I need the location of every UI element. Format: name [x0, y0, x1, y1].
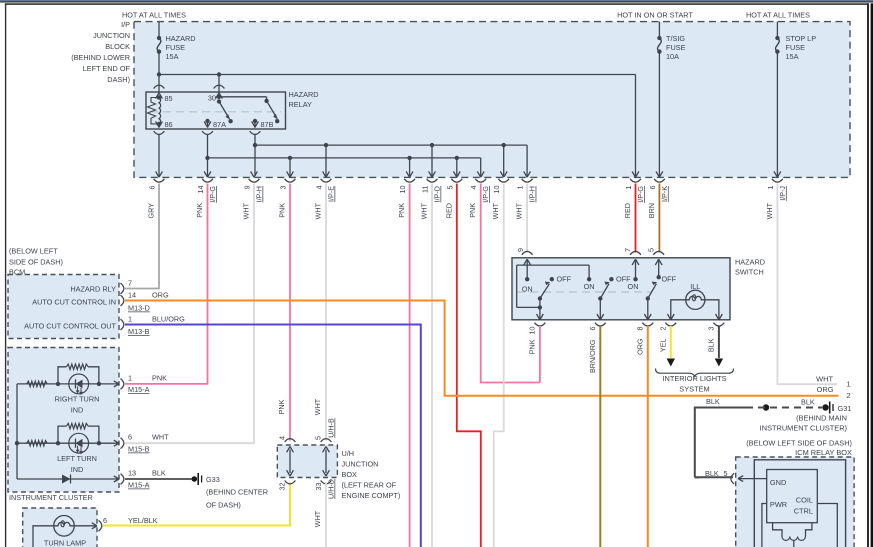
- svg-text:1: 1: [516, 186, 525, 190]
- label BEHIND CENTER OF DASH: [206, 488, 268, 510]
- label ORG right + pin 2: [817, 385, 851, 400]
- svg-text:IND: IND: [71, 465, 84, 474]
- turn lamp left wire: [33, 526, 54, 547]
- hazard pin 9 top: [516, 248, 533, 279]
- wire PNK to cluster pin1: [125, 184, 208, 384]
- switch2 arm: [598, 282, 610, 301]
- svg-text:I/P-K: I/P-K: [660, 186, 669, 202]
- ICM PWR wire: [762, 504, 767, 547]
- svg-text:(BEHIND MAIN: (BEHIND MAIN: [796, 413, 847, 422]
- svg-text:BLK: BLK: [706, 397, 720, 406]
- svg-text:ON: ON: [522, 284, 533, 293]
- switch3 ON contact: [628, 277, 639, 291]
- svg-text:ORG: ORG: [817, 385, 834, 394]
- svg-text:7: 7: [623, 248, 632, 252]
- svg-text:AUTO CUT CONTROL IN: AUTO CUT CONTROL IN: [32, 298, 116, 307]
- U/H pin 33 bottom: [314, 479, 336, 499]
- svg-text:32: 32: [278, 483, 287, 491]
- svg-text:1: 1: [847, 380, 851, 389]
- label TURN LAMP: [44, 539, 86, 547]
- wire RED 5 down: [457, 184, 481, 547]
- svg-text:OFF: OFF: [557, 275, 572, 284]
- wire WHT 1 stop lamp feed: [777, 184, 837, 385]
- wire fuse feed: [158, 22, 160, 38]
- wire branch pnk 4 (corner): [480, 158, 482, 176]
- fuse T/SIG FUSE 10A: [657, 34, 685, 61]
- svg-text:BOX: BOX: [342, 470, 358, 479]
- svg-text:OF DASH): OF DASH): [206, 501, 241, 510]
- svg-text:(LEFT REAR OF: (LEFT REAR OF: [342, 481, 397, 490]
- page frame top: [5, 3, 869, 5]
- svg-text:ORG: ORG: [152, 291, 169, 300]
- I/P junction block box: [134, 22, 850, 178]
- svg-text:U/H-B: U/H-B: [327, 418, 336, 438]
- svg-text:INSTRUMENT CLUSTER): INSTRUMENT CLUSTER): [760, 423, 847, 432]
- svg-text:PNK: PNK: [277, 399, 286, 414]
- svg-text:HAZARD: HAZARD: [289, 90, 319, 99]
- U/H internal arrow 5-33: [323, 447, 330, 477]
- svg-text:14: 14: [128, 291, 136, 300]
- switch rail net: [517, 265, 589, 309]
- bus 87B upper: [255, 143, 527, 147]
- svg-text:DASH): DASH): [107, 75, 130, 84]
- page frame right: [867, 3, 869, 547]
- svg-text:GRY: GRY: [147, 203, 156, 219]
- svg-text:10: 10: [528, 327, 537, 335]
- svg-text:7: 7: [128, 279, 132, 288]
- svg-text:8: 8: [636, 327, 645, 331]
- ground G31: [830, 402, 852, 414]
- svg-text:87A: 87A: [213, 120, 226, 129]
- svg-text:ON: ON: [628, 282, 639, 291]
- switch mechanical dashed link: [517, 291, 652, 293]
- relay contact 87B: [250, 119, 274, 135]
- wire BLK to interior lights: [715, 326, 723, 367]
- svg-text:HOT IN ON OR START: HOT IN ON OR START: [617, 11, 693, 20]
- svg-text:SWITCH: SWITCH: [735, 268, 764, 277]
- ICM pin 5: [705, 469, 734, 484]
- wire BRN 6 to hazard pin5: [658, 184, 660, 253]
- relay coil (pins 85-86): [148, 94, 173, 129]
- bypass loop left turn: [58, 423, 99, 443]
- switch1 ON contact: [522, 277, 533, 293]
- wire YEL to interior lights: [667, 326, 675, 367]
- BCM pin 1 AUTO CUT CONTROL OUT: [24, 315, 185, 337]
- svg-text:YEL/BLK: YEL/BLK: [128, 516, 158, 525]
- connector pin 9 WHT: [242, 171, 264, 219]
- svg-text:M15-A: M15-A: [128, 481, 150, 490]
- ILL right wire to pin 3: [705, 300, 722, 320]
- svg-text:15A: 15A: [166, 52, 179, 61]
- wire ORG hazard pin8: [647, 326, 649, 547]
- cluster pin 1: [114, 374, 167, 395]
- svg-text:85: 85: [165, 94, 173, 103]
- label I/P JUNCTION BLOCK (BEHIND LOWER LEFT END OF DASH): [71, 20, 130, 84]
- svg-text:86: 86: [165, 120, 173, 129]
- cluster left rail: [15, 384, 19, 479]
- connector pin 14 PNK: [195, 171, 217, 217]
- svg-text:(BEHIND CENTER: (BEHIND CENTER: [206, 488, 268, 497]
- svg-text:OFF: OFF: [662, 275, 677, 284]
- connector pin 10 WHT: [491, 171, 509, 219]
- wire WHT from U/H 33: [313, 483, 326, 547]
- svg-text:10A: 10A: [666, 52, 679, 61]
- hazard switch box: [512, 258, 730, 320]
- wire branch wht 11: [431, 145, 433, 176]
- bus from hazard fuse: [157, 72, 636, 76]
- LED right turn ind: [69, 374, 89, 395]
- svg-text:TURN LAMP: TURN LAMP: [44, 539, 86, 547]
- hazard pin 10 bottom: [528, 323, 546, 355]
- diode: [62, 475, 71, 484]
- svg-text:10: 10: [398, 186, 407, 194]
- svg-text:AUTO CUT CONTROL OUT: AUTO CUT CONTROL OUT: [24, 322, 116, 331]
- svg-text:PNK: PNK: [528, 339, 537, 354]
- svg-text:1: 1: [128, 315, 132, 324]
- svg-text:WHT: WHT: [816, 374, 833, 383]
- bypass loop right turn: [58, 364, 99, 384]
- svg-text:BLOCK: BLOCK: [105, 42, 130, 51]
- svg-text:1: 1: [128, 374, 132, 383]
- LED left turn ind: [69, 433, 89, 454]
- wire BLK horizontal to pin: [695, 476, 735, 478]
- BCM pin 14 AUTO CUT CONTROL IN: [32, 291, 169, 313]
- svg-text:3: 3: [707, 327, 716, 331]
- wire branch red 5: [456, 158, 458, 176]
- svg-text:M13-D: M13-D: [128, 304, 150, 313]
- svg-text:INTERIOR LIGHTS: INTERIOR LIGHTS: [662, 374, 726, 383]
- connector pin 10 PNK: [397, 171, 415, 217]
- label GND: [770, 478, 786, 487]
- label BEHIND MAIN INSTRUMENT CLUSTER: [760, 413, 847, 432]
- svg-text:(BELOW LEFT SIDE OF DASH): (BELOW LEFT SIDE OF DASH): [746, 439, 852, 448]
- svg-text:(BEHIND LOWER: (BEHIND LOWER: [71, 53, 130, 62]
- ICM module box: [767, 470, 818, 523]
- interior lights brace: [656, 369, 734, 377]
- svg-text:I/P-G: I/P-G: [481, 186, 490, 203]
- turn lamp right wire: [74, 525, 97, 527]
- fuse STOP LP FUSE 15A: [775, 34, 816, 61]
- svg-text:WHT: WHT: [313, 510, 322, 527]
- ICM relay box outer: [736, 457, 854, 547]
- bus 87A lower: [208, 156, 481, 160]
- wire BLK ICM to G31 junction: [695, 477, 742, 482]
- svg-text:RED: RED: [444, 203, 453, 218]
- wire PNK to U/H pin4: [277, 184, 290, 441]
- ILL left wire to pin 2: [667, 300, 685, 320]
- wire bus down to I/P-G 1 (red feed): [635, 75, 637, 177]
- svg-text:ILL: ILL: [690, 282, 700, 291]
- svg-text:33: 33: [314, 483, 323, 491]
- connector pin 6 GRY: [147, 171, 165, 218]
- connector pin 1 WHT: [765, 171, 787, 219]
- svg-text:I/P: I/P: [121, 20, 130, 29]
- ground G33: [192, 473, 220, 485]
- svg-text:BRN: BRN: [647, 203, 656, 218]
- svg-text:G31: G31: [838, 404, 852, 413]
- svg-text:11: 11: [421, 186, 430, 193]
- svg-text:WHT: WHT: [314, 202, 323, 219]
- svg-text:FUSE: FUSE: [786, 43, 806, 52]
- label HOT AT ALL TIMES (right): [746, 11, 810, 20]
- connector pin 3 PNK: [278, 171, 296, 217]
- turn lamp box: [23, 508, 97, 547]
- right turn row wire: [17, 382, 119, 386]
- svg-text:WHT: WHT: [765, 202, 774, 219]
- svg-text:(BELOW LEFT: (BELOW LEFT: [9, 247, 58, 256]
- page frame left: [5, 3, 6, 547]
- wire PNK 10 down: [409, 184, 411, 547]
- svg-text:COIL: COIL: [796, 496, 813, 505]
- svg-text:U/H-D: U/H-D: [327, 479, 336, 499]
- label HOT IN ON OR START: [617, 11, 693, 20]
- label WHT right + pin 1: [816, 374, 850, 388]
- wire WHT to cluster pin6: [125, 184, 254, 444]
- wire 87A down: [205, 135, 209, 177]
- svg-text:87B: 87B: [261, 120, 274, 129]
- wire branch pnk 3: [289, 158, 291, 176]
- svg-text:WHT: WHT: [313, 398, 322, 415]
- label BELOW LEFT SIDE OF DASH / ICM RELAY BOX: [746, 439, 852, 458]
- svg-text:1: 1: [624, 186, 633, 190]
- wire WHT 10 down with jog: [494, 184, 504, 547]
- svg-text:6: 6: [103, 516, 107, 525]
- svg-text:HAZARD: HAZARD: [166, 34, 196, 43]
- svg-text:3: 3: [279, 186, 288, 190]
- svg-text:T/SIG: T/SIG: [666, 34, 685, 43]
- label INTERIOR LIGHTS SYSTEM: [662, 374, 726, 394]
- ICM inner box: [754, 460, 845, 547]
- svg-text:WHT: WHT: [242, 202, 251, 219]
- wire GRY to BCM: [125, 184, 159, 289]
- svg-text:BLK: BLK: [801, 397, 815, 406]
- relay contact 87A: [202, 119, 226, 135]
- connector pin 6 BRN: [647, 171, 669, 218]
- label BELOW LEFT SIDE OF DASH / BCM: [9, 247, 63, 277]
- svg-text:RIGHT TURN: RIGHT TURN: [55, 395, 100, 404]
- relay pin 86 exit: [154, 121, 165, 134]
- hazard pin 5 top: [647, 248, 665, 277]
- svg-text:LEFT END OF: LEFT END OF: [83, 64, 131, 73]
- connector pin 4 WHT: [314, 171, 336, 219]
- wire ORG auto cut in: [125, 301, 839, 396]
- label INSTRUMENT CLUSTER: [9, 493, 93, 502]
- svg-text:FUSE: FUSE: [166, 43, 186, 52]
- wire WHT 11 down: [431, 184, 433, 547]
- U/H internal arrow 4-32: [287, 447, 294, 477]
- relay pin 30 and switch arms: [208, 94, 280, 124]
- ILL lamp: [686, 282, 705, 309]
- connector pin 11 WHT: [420, 171, 442, 219]
- svg-text:6: 6: [148, 186, 157, 190]
- label RIGHT TURN IND: [55, 395, 100, 415]
- svg-text:2: 2: [659, 327, 668, 331]
- svg-text:PNK: PNK: [397, 203, 406, 218]
- svg-text:U/H: U/H: [342, 449, 355, 458]
- wire branch wht 10: [503, 145, 505, 176]
- svg-text:M15-A: M15-A: [128, 385, 150, 394]
- svg-text:CTRL: CTRL: [794, 507, 813, 516]
- svg-text:I/P-H: I/P-H: [528, 186, 537, 202]
- svg-text:IND: IND: [71, 406, 84, 415]
- svg-text:PNK: PNK: [152, 374, 167, 383]
- svg-text:PNK: PNK: [468, 203, 477, 218]
- svg-text:SYSTEM: SYSTEM: [679, 385, 709, 394]
- BCM box: [8, 275, 119, 339]
- label HOT AT ALL TIMES (left): [122, 11, 186, 20]
- connector pin 5 RED: [444, 171, 462, 218]
- svg-text:5: 5: [647, 248, 656, 252]
- svg-text:FUSE: FUSE: [666, 43, 686, 52]
- svg-text:4: 4: [469, 186, 478, 190]
- wire bus to relay 30: [214, 75, 225, 99]
- hazard pin 3 bottom: [707, 323, 725, 352]
- label COIL CTRL: [794, 496, 813, 516]
- cluster box: [8, 348, 119, 493]
- wire branch pnk 10: [409, 158, 411, 176]
- svg-text:WHT: WHT: [491, 202, 500, 219]
- svg-text:ENGINE COMPT): ENGINE COMPT): [342, 491, 401, 500]
- svg-text:PWR: PWR: [770, 500, 787, 509]
- switch1 OFF contact: [550, 275, 572, 284]
- svg-text:I/P-J: I/P-J: [778, 186, 787, 201]
- svg-text:WHT: WHT: [420, 202, 429, 219]
- wire 86 down (GRY above): [158, 135, 160, 177]
- wire branch wht 1 (corner): [526, 145, 528, 176]
- connector pin 1 RED: [623, 171, 645, 218]
- label HAZARD RELAY: [289, 90, 319, 109]
- turn lamp bulb: [54, 516, 75, 537]
- U/H pin 4 top: [278, 436, 296, 442]
- switch3 OFF contact: [657, 275, 677, 284]
- svg-text:BLK: BLK: [152, 469, 166, 478]
- wire stop lp feed: [776, 22, 778, 38]
- svg-text:6: 6: [128, 433, 132, 442]
- svg-text:14: 14: [196, 186, 205, 194]
- hazard pin 8 bottom: [636, 323, 654, 355]
- switch2 OFF contact: [609, 275, 631, 284]
- label U/H JUNCTION BOX: [342, 449, 401, 500]
- svg-text:2: 2: [847, 391, 851, 400]
- wire PNK hazard pin10: [539, 326, 541, 383]
- connector pin 4 PNK: [468, 171, 490, 217]
- svg-text:I/P-G: I/P-G: [208, 186, 217, 203]
- svg-text:I/P-D: I/P-D: [433, 186, 442, 202]
- wire BLK to G33: [125, 478, 192, 480]
- svg-text:6: 6: [648, 186, 657, 190]
- ICM COIL CTRL wire: [817, 504, 837, 547]
- hazard pin 2 bottom: [659, 323, 677, 352]
- switch1 arm: [538, 282, 551, 301]
- svg-text:4: 4: [278, 436, 287, 440]
- wire stop lp fuse down: [776, 52, 778, 176]
- wire BLU/ORG auto cut out: [125, 325, 421, 547]
- svg-text:LEFT TURN: LEFT TURN: [57, 454, 97, 463]
- label HAZARD SWITCH: [735, 258, 765, 277]
- relay box HAZARD RELAY: [146, 92, 286, 129]
- svg-text:I/P-E: I/P-E: [327, 186, 336, 202]
- svg-text:6: 6: [588, 327, 597, 331]
- switch1 to pin 10: [537, 299, 544, 320]
- second page frame edge: [871, 3, 873, 547]
- wire YEL/BLK: [103, 483, 290, 526]
- U/H pin 5 top: [314, 418, 336, 442]
- resistor right turn: [27, 381, 48, 386]
- svg-text:4: 4: [315, 186, 324, 190]
- G31 dashed BLK: [758, 397, 829, 410]
- switch3 to pin 8: [644, 299, 651, 320]
- svg-text:I/P-H: I/P-H: [255, 186, 264, 202]
- svg-text:G33: G33: [206, 475, 220, 484]
- U/H pin 32 bottom: [278, 481, 296, 491]
- svg-text:ICM RELAY BOX: ICM RELAY BOX: [795, 448, 852, 457]
- svg-text:SIDE OF DASH): SIDE OF DASH): [9, 258, 63, 267]
- svg-text:GND: GND: [770, 478, 786, 487]
- fuse HAZARD FUSE 15A: [157, 34, 196, 61]
- svg-text:ON: ON: [584, 282, 595, 291]
- wire bus to relay 85: [154, 75, 165, 99]
- switch3 arm: [646, 282, 658, 301]
- turn lamp pin 6: [92, 516, 158, 531]
- svg-text:ORG: ORG: [636, 338, 645, 355]
- svg-text:BLK: BLK: [707, 338, 716, 352]
- cluster pin 13: [114, 469, 166, 490]
- svg-text:WHT: WHT: [515, 202, 524, 219]
- svg-text:5: 5: [314, 436, 323, 440]
- svg-text:I/P-G: I/P-G: [636, 186, 645, 203]
- svg-text:1: 1: [766, 186, 775, 190]
- wire RED 1 to hazard pin7: [635, 184, 637, 253]
- svg-text:BLU/ORG: BLU/ORG: [152, 315, 185, 324]
- svg-text:5: 5: [445, 186, 454, 190]
- svg-text:M13-B: M13-B: [128, 327, 150, 336]
- cluster pin 6: [114, 433, 169, 454]
- top window strip: [0, 0, 873, 3]
- svg-text:RED: RED: [623, 203, 632, 218]
- wire BLK to G31: [695, 397, 753, 477]
- switch2 to pin 6: [597, 299, 604, 320]
- resistor left turn: [27, 441, 48, 446]
- BCM pin 7 HAZARD RLY: [70, 279, 132, 294]
- svg-text:HOT AT ALL TIMES: HOT AT ALL TIMES: [746, 11, 810, 20]
- wire WHT to U/H pin5: [313, 184, 326, 441]
- svg-text:9: 9: [243, 186, 252, 190]
- wire PNK 4 to hazard pin10 bus: [481, 184, 540, 383]
- diode row wire: [17, 478, 119, 480]
- connector pin 1 WHT: [515, 171, 537, 219]
- svg-text:STOP LP: STOP LP: [786, 34, 817, 43]
- ICM relay coil assembly: [773, 523, 812, 547]
- left turn row wire: [17, 441, 119, 445]
- svg-text:RELAY: RELAY: [289, 100, 313, 109]
- svg-text:13: 13: [128, 469, 136, 478]
- svg-text:BRN/ORG: BRN/ORG: [588, 339, 597, 373]
- svg-text:WHT: WHT: [152, 433, 169, 442]
- hazard pin 7 top: [623, 248, 641, 279]
- wire 87B down: [253, 135, 257, 177]
- label LEFT TURN IND: [57, 454, 97, 474]
- svg-text:HOT AT ALL TIMES: HOT AT ALL TIMES: [122, 11, 186, 20]
- svg-text:JUNCTION: JUNCTION: [93, 31, 130, 40]
- wire fuse to bus: [158, 52, 160, 75]
- svg-text:PNK: PNK: [278, 203, 287, 218]
- svg-text:PNK: PNK: [195, 203, 204, 218]
- wire BRN/ORG hazard pin6: [599, 326, 601, 547]
- hazard pin 6 bottom: [588, 323, 606, 373]
- switch2 ON contact: [584, 277, 595, 291]
- ICM GND wire: [738, 476, 767, 482]
- relay internal dashed link: [150, 111, 281, 113]
